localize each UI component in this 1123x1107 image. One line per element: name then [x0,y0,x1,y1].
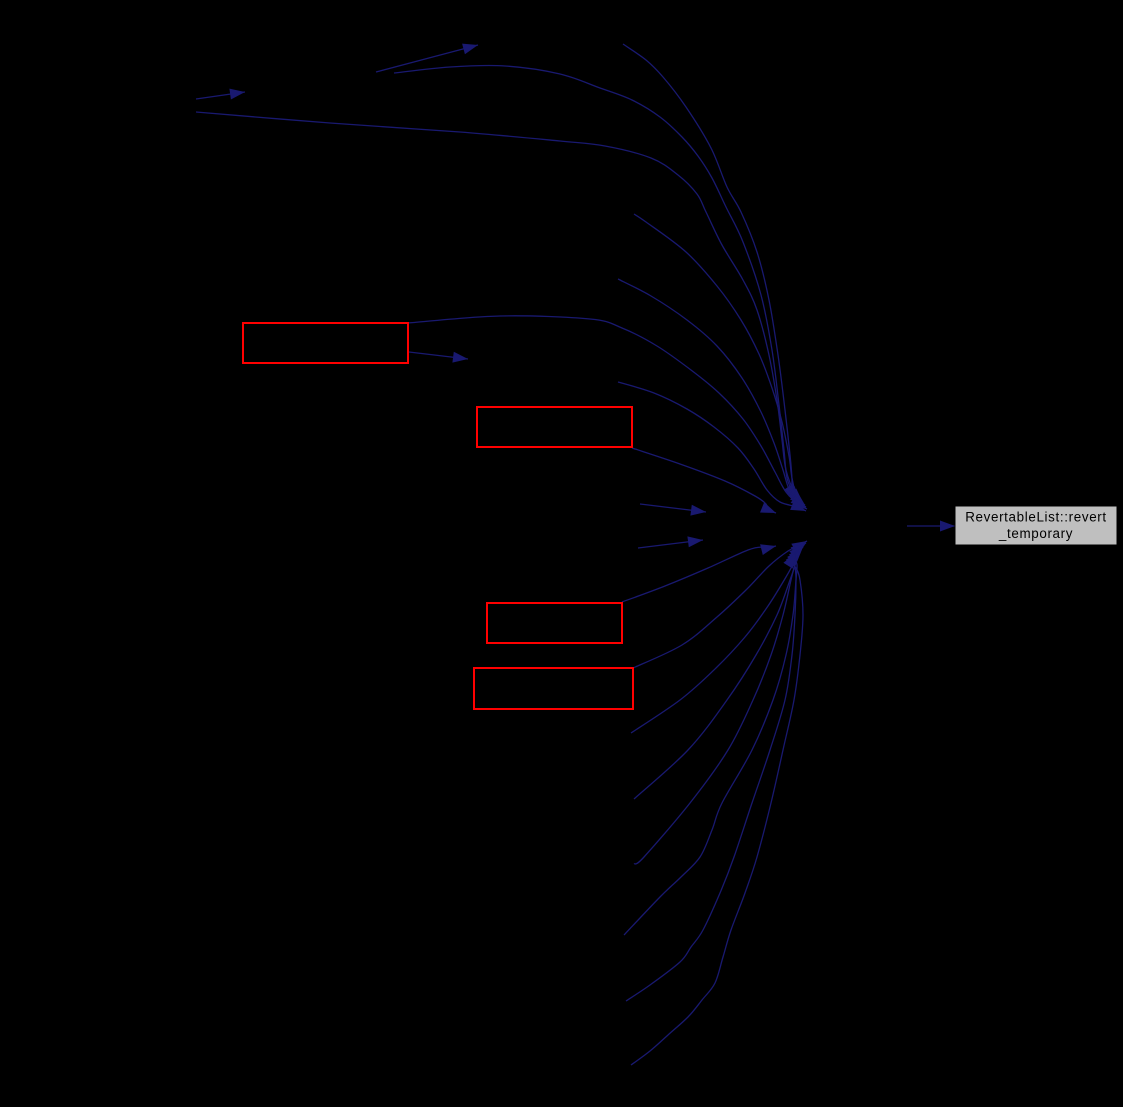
edge long from col2 node to hub u2 [394,65,800,501]
edge arrow col1 node to col2 node [196,92,245,99]
edge l3 caller to hub [631,543,806,733]
edge u7 caller to hub [618,382,806,511]
edge l8 bottom caller to hub [631,553,803,1065]
node box2 red truncated caller [477,407,632,447]
edge arrow box1 to col3 node [409,352,468,359]
edge u6 from box1 to hub [408,316,807,509]
node box4 red truncated caller [474,668,633,709]
edge hub to function node [907,525,955,527]
node box1 red truncated caller [243,323,408,363]
edge u8 from box2 to hub [632,448,776,513]
edge l6 caller to hub [624,549,801,935]
node RevertableList::revert_temporary current function gray [955,506,1117,545]
edge l5 caller to hub [634,547,803,864]
edge u5 caller to hub [618,279,806,507]
edge l7 caller to hub [626,551,799,1001]
edge l9 short arrow to hub [638,540,703,548]
edge u1 topmost caller to hub [623,44,797,499]
edge long from col1 node to hub u3 [196,112,803,503]
edge l1 from box3 to hub [622,546,776,602]
edge u4 caller to hub [634,214,805,505]
edge l4 caller to hub [634,545,804,799]
edge l2 from box4 to hub [633,541,807,668]
svg-text:_temporary: _temporary [998,526,1073,541]
edge u9 short arrow to hub [640,504,706,512]
edge arrow col2 node to col3 top node [376,45,478,72]
node box3 red truncated caller [487,603,622,643]
svg-text:RevertableList::revert: RevertableList::revert [965,510,1107,525]
